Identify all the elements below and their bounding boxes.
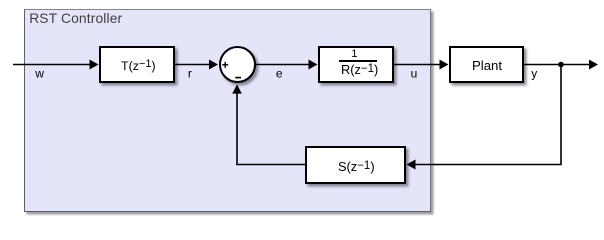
svg-text:u: u: [411, 67, 418, 81]
svg-text:y: y: [531, 67, 537, 81]
svg-text:w: w: [34, 67, 44, 81]
svg-text:r: r: [188, 67, 192, 81]
svg-text:e: e: [276, 67, 283, 81]
